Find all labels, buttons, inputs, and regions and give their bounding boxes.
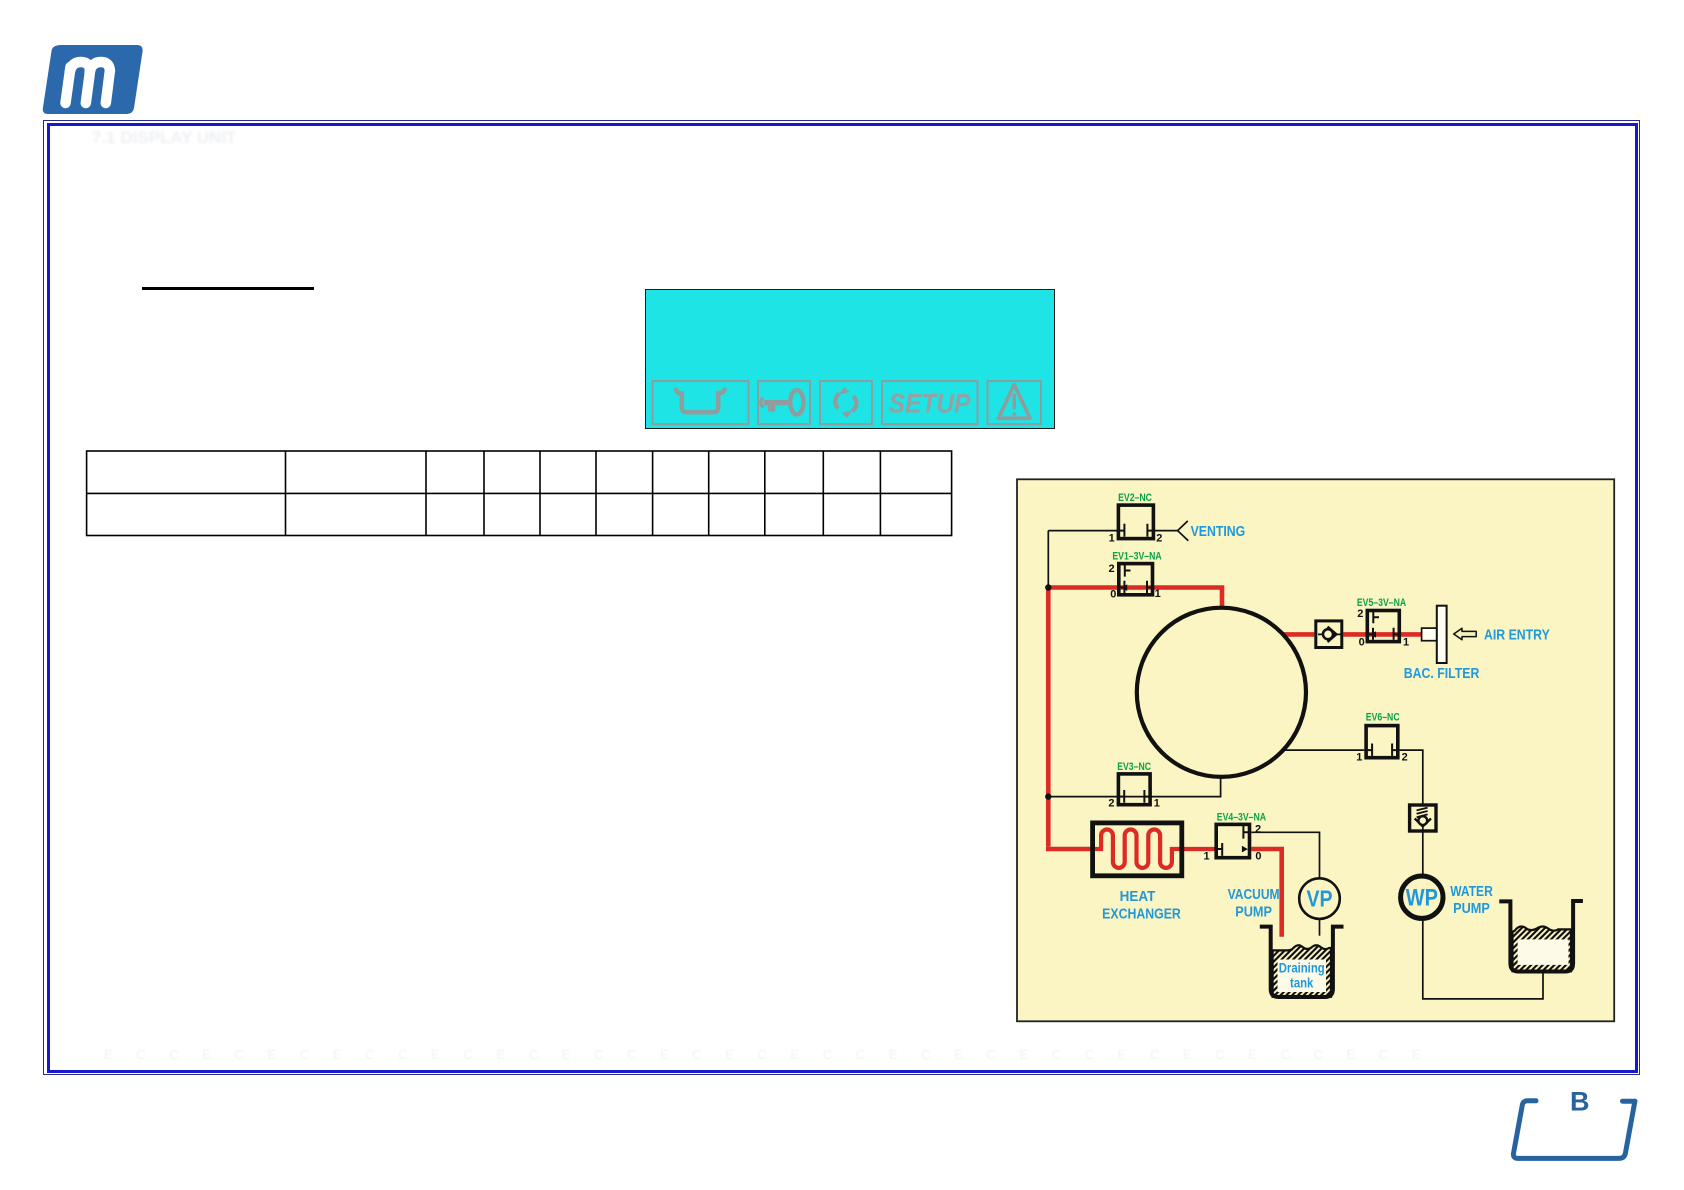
svg-text:VACUUM: VACUUM bbox=[1228, 886, 1280, 902]
svg-text:0: 0 bbox=[1110, 589, 1116, 601]
svg-text:2: 2 bbox=[1108, 797, 1114, 809]
svg-text:PUMP: PUMP bbox=[1453, 900, 1490, 916]
svg-text:EV4–3V–NA: EV4–3V–NA bbox=[1217, 812, 1266, 824]
svg-text:1: 1 bbox=[1203, 850, 1209, 862]
svg-text:EV1–3V–NA: EV1–3V–NA bbox=[1112, 550, 1161, 562]
svg-text:BAC. FILTER: BAC. FILTER bbox=[1404, 665, 1480, 681]
svg-text:EV2–NC: EV2–NC bbox=[1118, 492, 1152, 504]
svg-text:HEAT: HEAT bbox=[1120, 888, 1156, 905]
svg-text:EV3–NC: EV3–NC bbox=[1117, 761, 1151, 773]
svg-text:VP: VP bbox=[1306, 886, 1332, 912]
svg-text:1: 1 bbox=[1109, 532, 1115, 544]
svg-text:PUMP: PUMP bbox=[1235, 904, 1272, 920]
svg-text:1: 1 bbox=[1403, 636, 1409, 648]
svg-text:0: 0 bbox=[1255, 850, 1261, 862]
svg-text:2: 2 bbox=[1156, 532, 1162, 544]
svg-text:2: 2 bbox=[1255, 824, 1261, 836]
svg-text:WP: WP bbox=[1406, 884, 1438, 911]
svg-text:Draining: Draining bbox=[1279, 961, 1325, 976]
svg-text:VENTING: VENTING bbox=[1191, 523, 1246, 539]
svg-text:1: 1 bbox=[1356, 751, 1362, 763]
svg-text:EV5–3V–NA: EV5–3V–NA bbox=[1357, 597, 1406, 609]
svg-text:1: 1 bbox=[1154, 797, 1160, 809]
svg-text:EXCHANGER: EXCHANGER bbox=[1102, 906, 1181, 922]
svg-text:0: 0 bbox=[1359, 636, 1365, 648]
svg-text:EV6–NC: EV6–NC bbox=[1366, 712, 1400, 724]
svg-text:B: B bbox=[1570, 1087, 1590, 1117]
svg-text:AIR ENTRY: AIR ENTRY bbox=[1484, 626, 1550, 642]
svg-text:2: 2 bbox=[1357, 608, 1363, 620]
svg-text:SETUP: SETUP bbox=[889, 389, 972, 418]
svg-text:tank: tank bbox=[1290, 976, 1313, 991]
svg-text:2: 2 bbox=[1108, 563, 1114, 575]
svg-text:WATER: WATER bbox=[1450, 883, 1493, 899]
svg-text:2: 2 bbox=[1402, 751, 1408, 763]
svg-text:1: 1 bbox=[1155, 588, 1161, 600]
